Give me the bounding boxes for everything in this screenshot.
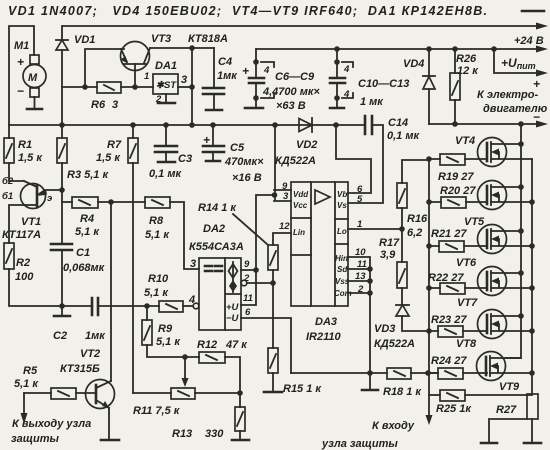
- svg-text:4: 4: [343, 64, 350, 75]
- capacitor C2: [53, 298, 106, 342]
- transistor VT5: [429, 181, 532, 229]
- svg-text:C4: C4: [218, 56, 232, 68]
- motor M1: [14, 40, 46, 98]
- svg-text:R23 27: R23 27: [431, 314, 467, 326]
- svg-text:5: 5: [357, 194, 363, 205]
- wire motor plus drop: [494, 49, 536, 73]
- wire regulator output column: [191, 48, 193, 125]
- driver DA3: [279, 181, 367, 343]
- svg-text:VD2: VD2: [296, 139, 317, 151]
- ground under M1: [27, 108, 42, 111]
- svg-text:узла защиты: узла защиты: [321, 438, 398, 450]
- diode VD3: [374, 288, 429, 350]
- wire R11 left: [133, 392, 171, 394]
- wire R15 ground: [272, 373, 274, 392]
- svg-text:+: +: [203, 133, 210, 147]
- svg-text:0,1 мк: 0,1 мк: [387, 130, 420, 142]
- svg-text:R18 1 к: R18 1 к: [383, 386, 422, 398]
- node pin9 DA2: [253, 267, 259, 273]
- wire C2 to R10/R9 node: [98, 305, 159, 307]
- svg-text:R25 1к: R25 1к: [436, 403, 472, 415]
- wire wiper arrow: [184, 357, 186, 378]
- node collector VT2 column: [108, 199, 114, 205]
- ground under R13: [232, 439, 249, 442]
- resistor R3: [57, 125, 109, 181]
- node VD1 anode / VT3 emitter / R6: [82, 84, 88, 90]
- svg-text:VD3: VD3: [374, 323, 395, 335]
- node common ground junction: [367, 370, 373, 376]
- svg-text:3: 3: [283, 191, 289, 202]
- svg-text:Lo: Lo: [337, 227, 347, 236]
- wire R6 to DA1 pin1: [121, 86, 153, 88]
- node Vdd: [272, 192, 278, 198]
- capacitor bank C6-C9: [242, 49, 320, 112]
- svg-text:R10: R10: [148, 273, 169, 285]
- resistor R27 shunt: [496, 394, 538, 419]
- diode VD4: [403, 49, 435, 124]
- capacitor C4: [203, 48, 238, 110]
- wire R25 to shunt: [465, 394, 532, 396]
- transistor VT3: [121, 33, 228, 87]
- resistor R26: [450, 49, 479, 124]
- capacitor C1: [51, 244, 106, 306]
- transistor VT1 unijunction: [2, 176, 62, 241]
- small mark top right: [522, 10, 544, 13]
- svg-text:✱ST: ✱ST: [156, 80, 177, 91]
- wire R4 to R8: [98, 201, 145, 203]
- wire R18 to gate bus: [411, 372, 438, 374]
- svg-text:R2: R2: [16, 257, 30, 269]
- svg-text:0,1 мк: 0,1 мк: [149, 168, 182, 180]
- svg-text:R22 27: R22 27: [428, 272, 464, 284]
- resistor R15: [268, 348, 322, 395]
- wire R12 to R13 top: [225, 357, 240, 393]
- svg-text:5,1 к: 5,1 к: [144, 287, 169, 299]
- svg-text:C1: C1: [76, 247, 90, 259]
- svg-text:M: M: [28, 72, 38, 84]
- svg-text:б2: б2: [2, 176, 14, 187]
- node R11 / R12 / R13: [237, 390, 243, 396]
- svg-text:+U: +U: [226, 302, 240, 313]
- node rail junctions: [59, 122, 65, 128]
- svg-text:−: −: [533, 110, 540, 124]
- svg-text:3: 3: [112, 99, 118, 111]
- wire pin2 to R14 node: [247, 282, 273, 284]
- svg-text:11: 11: [243, 293, 253, 304]
- capacitor C14: [365, 116, 420, 142]
- node VT3 collector / output column: [189, 45, 195, 51]
- wire DA3 logic pins bus: [348, 257, 370, 373]
- svg-text:R1: R1: [18, 139, 32, 151]
- svg-text:R6: R6: [91, 99, 106, 111]
- svg-text:э: э: [47, 193, 52, 204]
- wire +Upit rail: [256, 48, 536, 50]
- resistor R1: [4, 125, 43, 164]
- svg-text:КТ117А: КТ117А: [2, 229, 41, 241]
- svg-text:VD4: VD4: [403, 58, 424, 70]
- svg-text:R15 1 к: R15 1 к: [283, 383, 322, 395]
- wire motor minus line: [429, 123, 536, 125]
- svg-text:R21 27: R21 27: [431, 228, 467, 240]
- svg-text:470мк×: 470мк×: [224, 156, 264, 168]
- svg-text:1,5 к: 1,5 к: [18, 152, 43, 164]
- svg-text:+Uпит: +Uпит: [501, 56, 536, 71]
- svg-text:5,1 к: 5,1 к: [14, 378, 39, 390]
- wire R11 right: [195, 392, 240, 394]
- svg-text:×63 В: ×63 В: [276, 100, 306, 112]
- wire R2 to C2 line: [9, 269, 92, 306]
- node R18 / R24 / gate bus: [425, 370, 431, 376]
- svg-text:3,9: 3,9: [380, 249, 396, 261]
- svg-text:К554СА3А: К554СА3А: [189, 241, 244, 253]
- svg-text:DA3: DA3: [315, 316, 337, 328]
- svg-text:12 к: 12 к: [457, 65, 479, 77]
- svg-text:1мк: 1мк: [217, 70, 238, 82]
- svg-text:4,4700 мк×: 4,4700 мк×: [262, 86, 320, 98]
- resistor R21: [431, 228, 467, 252]
- wire source bus: [531, 159, 533, 394]
- transistor VT8: [429, 310, 532, 351]
- node pin4 circle: [193, 303, 199, 309]
- ground DA1: [158, 102, 175, 105]
- svg-text:R7: R7: [107, 139, 122, 151]
- wire common row: [291, 372, 387, 374]
- svg-text:C5: C5: [230, 142, 245, 154]
- wire R5 to VT2 base: [76, 392, 96, 394]
- wire emitter node down: [61, 190, 63, 244]
- wire Vb bootstrap: [336, 125, 371, 193]
- ground under common node: [369, 373, 371, 390]
- wire motor to ground: [34, 97, 36, 109]
- resistor R9: [142, 306, 181, 348]
- wire VT3 emitter feed: [85, 49, 124, 87]
- node base VT3: [132, 84, 138, 90]
- svg-text:4: 4: [263, 65, 270, 76]
- capacitor C5: [203, 125, 264, 184]
- svg-text:12: 12: [279, 221, 290, 232]
- svg-text:330: 330: [205, 428, 224, 440]
- svg-text:5,1 к: 5,1 к: [145, 229, 170, 241]
- wire jog to DA2 supply pins: [241, 195, 274, 305]
- node C1/C2 ground junction: [59, 303, 65, 309]
- wire C14 right to Vs: [348, 125, 383, 203]
- node C2 / R9 / R10: [144, 303, 150, 309]
- wire to ground: [61, 306, 63, 316]
- resistor R20: [440, 185, 476, 208]
- node output arrow to protection: [23, 393, 25, 413]
- svg-text:VT9: VT9: [499, 381, 520, 393]
- ground under R15: [264, 391, 282, 394]
- capacitor C3: [149, 125, 192, 180]
- svg-text:Hin: Hin: [335, 254, 348, 263]
- wire R9 to R12 row: [147, 345, 199, 357]
- svg-text:Vdd: Vdd: [293, 190, 309, 199]
- svg-text:С10—С13: С10—С13: [358, 78, 409, 90]
- resistor R14: [198, 202, 291, 270]
- ground left of R27: [481, 442, 497, 445]
- svg-text:M1: M1: [14, 40, 29, 52]
- svg-text:R26: R26: [456, 53, 477, 65]
- svg-text:R11 7,5 к: R11 7,5 к: [133, 405, 181, 417]
- wire motor loop left: [9, 26, 34, 124]
- svg-text:×16 В: ×16 В: [232, 172, 262, 184]
- wire b1 to R2: [9, 205, 24, 243]
- wire R27 bottom to grounds: [489, 419, 532, 443]
- svg-text:R19 27: R19 27: [438, 171, 474, 183]
- wire VT3 collector: [150, 47, 214, 49]
- transistor VT7: [429, 267, 532, 310]
- svg-text:0,068мк: 0,068мк: [63, 262, 106, 274]
- node pin2 circle: [241, 280, 247, 286]
- svg-text:6,2: 6,2: [407, 227, 422, 239]
- svg-text:−U: −U: [226, 313, 240, 324]
- svg-text:C2: C2: [53, 330, 67, 342]
- resistor R4: [72, 197, 100, 238]
- node gate bus dots: [426, 156, 432, 162]
- resistor R18: [383, 368, 422, 398]
- node Lo / R16 / R17: [399, 226, 405, 232]
- svg-text:VT6: VT6: [456, 257, 477, 269]
- transistor VT9: [429, 352, 532, 394]
- svg-text:VD1 1N4007; VD4 150EBU02;: VD1 1N4007; VD4 150EBU02; VT4—VT9 IRF640…: [8, 4, 488, 18]
- svg-text:3: 3: [190, 258, 196, 270]
- svg-text:4: 4: [343, 89, 350, 100]
- wire VD1 node to R6 and down to rail: [62, 87, 97, 124]
- svg-text:DA1: DA1: [155, 60, 177, 72]
- svg-text:R4: R4: [80, 213, 94, 225]
- svg-text:47 к: 47 к: [225, 339, 248, 351]
- node DA1 pin3 / output column: [189, 84, 195, 90]
- wire R4 row: [62, 201, 72, 203]
- svg-text:R20 27: R20 27: [440, 185, 476, 197]
- svg-text:+24 В: +24 В: [514, 35, 544, 47]
- svg-text:4: 4: [188, 294, 195, 306]
- svg-text:VT1: VT1: [21, 216, 41, 228]
- svg-text:R27: R27: [496, 404, 517, 416]
- capacitor bank C10-C13: [330, 49, 409, 108]
- svg-text:1 мк: 1 мк: [360, 96, 384, 108]
- wire R10 to pin4: [183, 305, 193, 307]
- svg-text:DA2: DA2: [203, 223, 225, 235]
- wire Lo row: [348, 228, 402, 230]
- svg-text:5,1 к: 5,1 к: [75, 226, 100, 238]
- svg-text:C14: C14: [388, 117, 408, 129]
- ground under R27: [524, 442, 541, 445]
- svg-text:VT3: VT3: [151, 33, 171, 45]
- wire DA3 supply column: [274, 125, 291, 201]
- node DA2 output / R14 / R15: [270, 280, 276, 286]
- ground under C1: [54, 315, 70, 318]
- svg-text:Vb: Vb: [337, 190, 347, 199]
- wire DA1 pin2 ground: [165, 94, 167, 103]
- wire +24V rail: [63, 25, 536, 27]
- resistor R16: [397, 160, 429, 239]
- node emitter VT1: [59, 187, 65, 193]
- svg-text:+: +: [17, 55, 24, 69]
- svg-text:КТ818А: КТ818А: [188, 33, 228, 45]
- transistor VT2: [60, 348, 115, 440]
- transistor VT6: [429, 225, 532, 270]
- resistor R6: [91, 82, 121, 111]
- resistor R12: [197, 339, 248, 363]
- svg-text:+: +: [242, 64, 249, 78]
- resistor R23: [431, 314, 467, 337]
- resistor R25: [429, 390, 472, 415]
- svg-text:Sd: Sd: [337, 265, 348, 274]
- svg-text:5,1 к: 5,1 к: [156, 336, 181, 348]
- diode VD1: [56, 26, 95, 87]
- comparator DA2: [188, 223, 253, 330]
- svg-text:VD1: VD1: [74, 34, 95, 46]
- wire gate bus: [428, 159, 430, 418]
- wire R1 to b2: [9, 163, 24, 181]
- svg-text:R9: R9: [158, 323, 173, 335]
- resistor R22: [428, 272, 465, 294]
- svg-text:VT4: VT4: [455, 135, 475, 147]
- wire R7 column down to R11: [132, 163, 134, 393]
- potentiometer R11: [133, 388, 195, 417]
- wire VT2 collector column: [110, 202, 112, 381]
- node wiper junction: [182, 354, 188, 360]
- svg-text:1мк: 1мк: [85, 330, 106, 342]
- resistor R2: [4, 243, 34, 283]
- svg-text:VT8: VT8: [456, 338, 477, 350]
- svg-text:IR2110: IR2110: [306, 331, 342, 343]
- wire R8 to DA2 pin3: [170, 202, 199, 269]
- wire R3 to emitter node: [61, 163, 63, 190]
- svg-text:КД522А: КД522А: [275, 155, 316, 167]
- svg-text:6: 6: [245, 307, 251, 318]
- resistor R17: [379, 237, 407, 288]
- wire R13 ground: [239, 431, 241, 440]
- svg-text:Vs: Vs: [337, 201, 347, 210]
- node arrow +24V: [536, 23, 548, 30]
- svg-text:100: 100: [15, 271, 34, 283]
- resistor R7: [96, 125, 138, 164]
- svg-text:R17: R17: [379, 237, 400, 249]
- resistor R24: [431, 355, 467, 379]
- resistor R13: [172, 393, 245, 440]
- wire R14 to pin2 node and down: [272, 270, 274, 348]
- svg-text:КД522А: КД522А: [374, 338, 415, 350]
- svg-text:R14 1 к: R14 1 к: [198, 202, 237, 214]
- svg-text:К входу: К входу: [372, 420, 415, 432]
- wire +15V rail: [9, 124, 365, 126]
- svg-text:VT7: VT7: [457, 297, 478, 309]
- ground under VT2: [101, 439, 119, 442]
- svg-text:VT5: VT5: [464, 216, 485, 228]
- svg-text:1: 1: [144, 71, 149, 82]
- svg-text:R13: R13: [172, 428, 192, 440]
- wire drain bus: [506, 124, 521, 358]
- svg-text:К электро-: К электро-: [477, 89, 538, 101]
- svg-text:R8: R8: [149, 215, 164, 227]
- svg-text:С6—С9: С6—С9: [275, 71, 315, 83]
- svg-text:КТ315Б: КТ315Б: [60, 363, 100, 375]
- svg-text:Lin: Lin: [293, 228, 305, 237]
- svg-text:защиты: защиты: [11, 433, 60, 445]
- svg-text:C3: C3: [178, 153, 192, 165]
- svg-text:Vcc: Vcc: [293, 201, 308, 210]
- svg-text:R16: R16: [407, 213, 428, 225]
- resistor R5: [14, 365, 76, 399]
- svg-text:9: 9: [244, 259, 250, 270]
- svg-text:R5: R5: [23, 365, 38, 377]
- voltage regulator DA1: [144, 60, 187, 105]
- svg-text:1,5 к: 1,5 к: [96, 152, 121, 164]
- svg-text:VT2: VT2: [80, 348, 100, 360]
- svg-text:R12: R12: [197, 339, 217, 351]
- svg-text:−: −: [17, 84, 24, 98]
- node rail dots: [334, 46, 340, 52]
- transistor VT4: [429, 135, 532, 167]
- wire DA2 pin6 to common: [241, 318, 291, 373]
- resistor R19: [438, 154, 474, 183]
- wire DA1 pin3: [178, 86, 192, 88]
- wire R16 to Lo node: [401, 208, 403, 262]
- node bus dots: [367, 266, 373, 272]
- svg-text:К выходу узла: К выходу узла: [12, 418, 91, 430]
- diode VD2: [275, 118, 317, 167]
- resistor R8: [145, 197, 170, 241]
- svg-text:б1: б1: [2, 191, 13, 202]
- resistor R10: [144, 273, 183, 312]
- svg-text:R3 5,1 к: R3 5,1 к: [67, 169, 109, 181]
- svg-text:3: 3: [181, 74, 187, 86]
- svg-text:R24 27: R24 27: [431, 355, 467, 367]
